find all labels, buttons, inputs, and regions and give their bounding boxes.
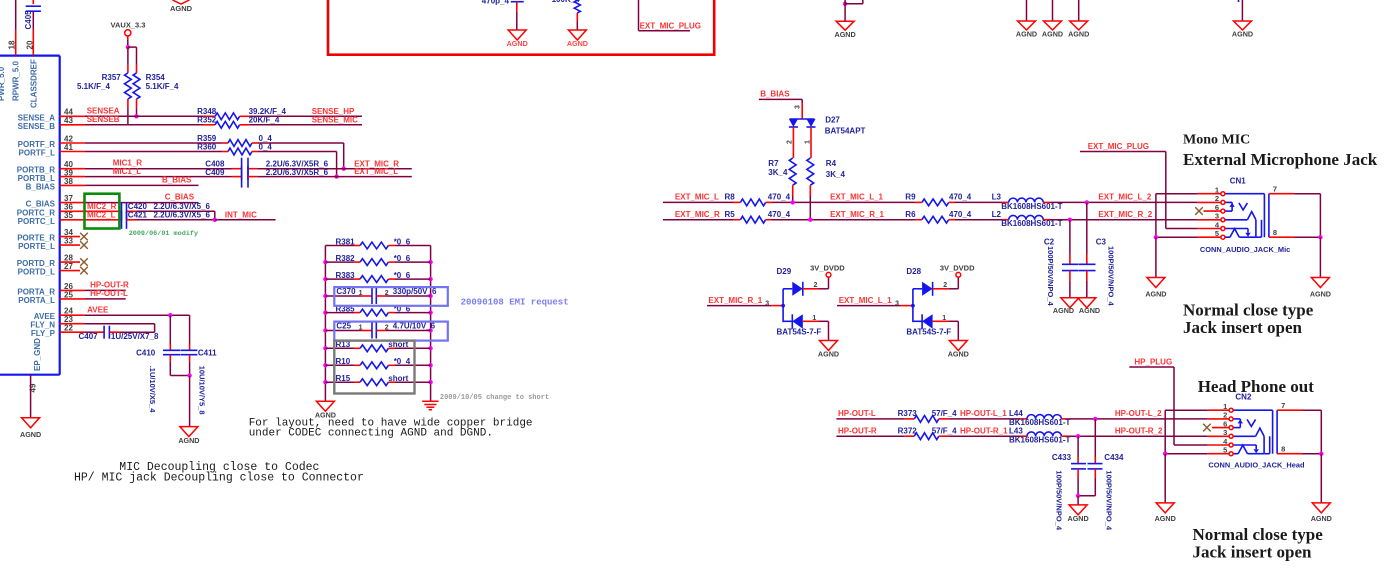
value 100P/50V/NPO_4 (C3 rotated) <box>1106 246 1115 306</box>
label C3 <box>1096 237 1107 246</box>
resistor R373 57/F_4 <box>905 416 949 423</box>
svg-text:Jack insert open: Jack insert open <box>1183 318 1303 337</box>
wire VAUX to R357 <box>127 47 129 65</box>
svg-text:HP-OUT-L_2: HP-OUT-L_2 <box>1115 409 1162 418</box>
wire HP-OUT-R_2 row <box>1070 435 1208 437</box>
svg-text:C411: C411 <box>198 349 217 358</box>
svg-text:PORTC_L: PORTC_L <box>18 217 55 226</box>
junction stack right <box>428 310 432 314</box>
title Jack insert open (CN1) <box>1183 318 1303 337</box>
label C2 <box>1044 237 1055 246</box>
svg-text:HP-OUT-L: HP-OUT-L <box>90 289 128 298</box>
ground AGND top 5 <box>1232 21 1253 39</box>
label R373 <box>898 409 918 418</box>
net label HP_PLUG <box>1134 358 1172 367</box>
junction VAUX node <box>126 45 130 49</box>
label C421 <box>128 210 148 219</box>
svg-text:57/F_4: 57/F_4 <box>932 426 957 435</box>
svg-text:AGND: AGND <box>835 30 856 39</box>
junction CN1 pin8 node <box>1318 235 1322 239</box>
net label EXT_MIC_L_1 <box>830 193 883 202</box>
svg-text:CONN_AUDIO_JACK_Mic: CONN_AUDIO_JACK_Mic <box>1200 245 1290 254</box>
capacitor C433 100P/50V/NPO_4 <box>1071 436 1086 496</box>
svg-text:EXT_MIC_L: EXT_MIC_L <box>675 193 719 202</box>
svg-text:Normal close type: Normal close type <box>1193 525 1324 544</box>
svg-text:EXT_MIC_R_2: EXT_MIC_R_2 <box>1098 210 1152 219</box>
wire top AGND 5 <box>1239 0 1243 21</box>
svg-text:AGND: AGND <box>948 350 969 359</box>
capacitor C405 (series on pin20 wire) <box>26 0 41 56</box>
label R8 <box>725 193 736 202</box>
capacitor C410 .1U/10V/X5_4 <box>163 315 190 375</box>
resistor R383 *0_6 <box>325 276 430 283</box>
net label EXT_MIC_PLUG (CN1) <box>1088 142 1149 151</box>
label CN2 <box>1235 393 1252 402</box>
svg-text:BAT54S-7-F: BAT54S-7-F <box>777 327 822 336</box>
svg-text:3K_4: 3K_4 <box>768 168 788 177</box>
svg-text:HP-OUT-R_2: HP-OUT-R_2 <box>1115 426 1163 435</box>
resistor R359 0_4 <box>222 140 258 147</box>
svg-text:R360: R360 <box>197 142 217 151</box>
wire HP-OUT-R row <box>836 435 904 437</box>
value 3K_4 (R7) <box>768 168 788 177</box>
ground AGND CN2 left <box>1155 503 1176 523</box>
wire CN2 right ground down <box>1320 454 1322 503</box>
label CN1 <box>1230 176 1247 185</box>
junction stack left <box>323 294 327 298</box>
net label EXT_MIC_R <box>354 159 399 168</box>
value *0_6 (R381) <box>394 237 411 246</box>
svg-text:8: 8 <box>1273 228 1277 237</box>
net label B_BIAS <box>162 176 192 185</box>
ground AGND CN2 right <box>1311 503 1332 523</box>
svg-text:EXT_MIC_L_2: EXT_MIC_L_2 <box>1098 193 1151 202</box>
pin 3 (D29) <box>765 300 769 307</box>
svg-text:L44: L44 <box>1009 409 1023 418</box>
wire SENSE_HP <box>249 115 362 117</box>
svg-text:AGND: AGND <box>1068 514 1089 523</box>
svg-text:3V_DVDD: 3V_DVDD <box>940 263 975 272</box>
svg-text:BK1608HS601-T: BK1608HS601-T <box>1001 202 1062 211</box>
highlight gray box R13-R15 <box>334 341 414 394</box>
pin number 49 (rotated) <box>29 383 38 392</box>
wire EXT_MIC_R after R6 <box>955 219 1002 221</box>
net label MIC1_R <box>113 159 143 168</box>
wire FLY_N (pin23) <box>60 324 155 333</box>
junction C3 tap <box>1085 200 1089 204</box>
svg-text:C_BIAS: C_BIAS <box>26 200 56 209</box>
resistor R352 20K/F_4 <box>203 121 249 128</box>
label R360 <box>197 142 217 151</box>
wire CN1 pin2 stub <box>1198 201 1221 203</box>
wire HP-OUT-L_1 <box>949 418 1020 420</box>
label R4 <box>826 159 837 168</box>
svg-text:AGND: AGND <box>1311 514 1332 523</box>
svg-text:1: 1 <box>359 324 363 331</box>
value short (R13) <box>388 340 408 349</box>
capacitor C421 2.2U/6.3V/X5_6 <box>122 211 215 229</box>
svg-text:R7: R7 <box>768 159 779 168</box>
label C405 (rotated) <box>24 10 33 30</box>
net label EXT_MIC_PLUG (top) <box>640 21 701 30</box>
resistor R385 *0_6 <box>325 309 430 316</box>
junction stack right <box>428 294 432 298</box>
inductor L3 BK1608HS601-T <box>1002 198 1050 202</box>
svg-text:R383: R383 <box>336 271 356 280</box>
resistor R360 0_4 <box>222 148 258 155</box>
svg-text:AGND: AGND <box>1145 290 1166 299</box>
svg-text:3: 3 <box>795 105 802 109</box>
svg-text:1: 1 <box>942 315 946 322</box>
svg-text:PWR_5.0: PWR_5.0 <box>0 66 6 101</box>
wire MIC1_L (pin39) <box>60 176 232 178</box>
svg-text:CLASSDREF: CLASSDREF <box>30 59 39 108</box>
svg-text:MIC1_L: MIC1_L <box>113 167 142 176</box>
label R357 <box>102 73 122 82</box>
connector CN1 jack glyph <box>1215 185 1294 240</box>
svg-text:D29: D29 <box>777 267 792 276</box>
wire B_BIAS to D27 <box>759 99 802 119</box>
svg-text:0_4: 0_4 <box>259 142 273 151</box>
value *0_6 (R382) <box>394 254 411 263</box>
highlight green box around MIC2 labels <box>85 194 120 229</box>
value 10U/10V/Y5_8 (rotated) <box>198 366 207 415</box>
wire pin18 vertical <box>15 0 17 56</box>
resistor R9 470_4 <box>915 199 955 206</box>
value *0_4 (R10) <box>394 357 411 366</box>
svg-text:EXT_MIC_L_1: EXT_MIC_L_1 <box>839 296 892 305</box>
svg-text:33: 33 <box>64 237 73 246</box>
ground bars stack right (DGND) <box>422 401 438 410</box>
ground AGND stack left <box>315 401 336 419</box>
junction CN2 pin8 node <box>1319 452 1323 456</box>
svg-text:D28: D28 <box>906 267 921 276</box>
svg-text:*0_6: *0_6 <box>394 271 411 280</box>
svg-text:470_4: 470_4 <box>768 210 791 219</box>
label C411 <box>198 349 217 358</box>
svg-text:R10: R10 <box>336 357 351 366</box>
svg-text:AGND: AGND <box>1053 306 1074 315</box>
svg-text:AGND: AGND <box>170 4 193 13</box>
svg-text:*0_6: *0_6 <box>394 237 411 246</box>
svg-text:C409: C409 <box>205 168 225 177</box>
wire INT_MIC <box>215 219 276 221</box>
ground AGND below C411 <box>178 427 199 445</box>
value *0_6 (R383) <box>394 271 411 280</box>
value 20K/F_4 <box>249 116 280 125</box>
ground AGND top 1 <box>835 21 856 39</box>
pin 25 PORTA_L <box>18 290 73 305</box>
pin 2 (D28) <box>943 282 947 289</box>
pin number 18 (rotated) <box>8 40 17 49</box>
label R382 <box>336 254 356 263</box>
wire HP-OUT-L row <box>836 418 904 420</box>
svg-text:BAT54S-7-F: BAT54S-7-F <box>906 327 951 336</box>
label R354 <box>146 73 166 82</box>
wire C433 to AGND <box>1077 496 1079 505</box>
net label EXT_MIC_L (right) <box>675 193 719 202</box>
wire EXT_MIC_PLUG (top) <box>639 0 691 31</box>
pin 38 B_BIAS <box>26 177 74 192</box>
label R10 <box>336 357 351 366</box>
svg-text:AGND: AGND <box>818 350 839 359</box>
IC codec block outline U_left <box>0 56 60 375</box>
svg-text:5.1K/F_4: 5.1K/F_4 <box>146 82 179 91</box>
pin 43 SENSE_B <box>18 116 74 131</box>
capacitor C409 2.2U/6.3V/X5R_6 <box>232 166 258 188</box>
resistor R4 3K_4 <box>807 127 814 220</box>
svg-text:22: 22 <box>64 324 73 333</box>
ground AGND under 470p cap <box>507 30 528 48</box>
ground AGND top 2 <box>1016 21 1037 39</box>
wire CN2 pin3 stub <box>1208 435 1229 437</box>
svg-text:AGND: AGND <box>1042 30 1063 39</box>
net label EXT_MIC_R (right) <box>675 210 720 219</box>
label R372 <box>898 426 918 435</box>
pin 2 (D29) <box>814 282 818 289</box>
junction stack left <box>323 277 327 281</box>
label R348 <box>197 107 217 116</box>
wire CN2 pin5 to ground <box>1165 453 1229 455</box>
value 1U/25V/X7_8 <box>111 332 159 341</box>
svg-text:CONN_AUDIO_JACK_Head: CONN_AUDIO_JACK_Head <box>1208 461 1305 470</box>
wire SENSEB (pin43) <box>60 124 203 126</box>
label D28 <box>906 267 921 276</box>
label R383 <box>336 271 356 280</box>
net label MIC2_L <box>87 210 116 219</box>
junction stack right <box>428 363 432 367</box>
wire top AGND 1 corner <box>845 0 863 21</box>
value short (R15) <box>388 374 408 383</box>
wire EXT_MIC_L_2 row <box>1050 201 1198 203</box>
value 57/F_4 (R373) <box>932 409 957 418</box>
junction D28 input <box>911 304 915 308</box>
svg-text:C410: C410 <box>136 349 156 358</box>
svg-text:Normal close type: Normal close type <box>1183 301 1314 320</box>
label L43 <box>1009 426 1023 435</box>
note 20090108 EMI request <box>461 298 569 308</box>
junction R4/EXT_MIC_R_1 <box>808 218 812 222</box>
note For layout copper bridge <box>249 418 533 440</box>
resistor R5 470_4 <box>733 216 772 223</box>
wire CN1 pin3 stub <box>1198 219 1221 221</box>
svg-text:470_4: 470_4 <box>768 193 791 202</box>
wire HP_PLUG to CN2 pin4 <box>1129 367 1229 445</box>
svg-text:27: 27 <box>64 262 73 271</box>
wire EXT_MIC_L row <box>663 201 733 203</box>
label D27 <box>825 116 840 125</box>
net label HP-OUT-L_2 <box>1115 409 1162 418</box>
net label EXT_MIC_L_1 (to D28) <box>839 296 892 305</box>
svg-text:470p_4: 470p_4 <box>482 0 510 5</box>
value 2.2U/6.3V/X5R_6 (C409) <box>266 168 329 177</box>
highlight red EMI box <box>328 0 714 55</box>
label C370 <box>336 287 356 296</box>
wire pin41 to EXT_MIC_L node <box>258 152 337 177</box>
resistor R357 5.1K/F_4 <box>125 65 132 125</box>
no-connect X CN1 pin6 <box>1195 207 1220 215</box>
net label HP-OUT-L <box>90 289 128 298</box>
label R15 <box>336 374 351 383</box>
ground AGND top 3 <box>1042 21 1063 39</box>
wire HP-OUT-R (pin26) <box>60 289 126 291</box>
svg-text:5.1K/F_4: 5.1K/F_4 <box>77 82 110 91</box>
svg-text:EP_GND: EP_GND <box>33 338 42 371</box>
value 4.7U/10V_6 <box>393 321 436 330</box>
wire CN2 ground down <box>1164 454 1166 503</box>
svg-text:BK1608HS601-T: BK1608HS601-T <box>1001 219 1062 228</box>
resistor R15 short <box>325 379 430 386</box>
svg-text:HP_PLUG: HP_PLUG <box>1134 358 1172 367</box>
net label SENSE_HP <box>312 107 355 116</box>
label C407 <box>79 332 99 341</box>
value *0_6 (R385) <box>394 305 411 314</box>
net label HP-OUT-L (right) <box>838 409 876 418</box>
svg-text:*0_6: *0_6 <box>394 254 411 263</box>
wire CN1 ground down <box>1155 237 1157 277</box>
label R13 <box>336 340 351 349</box>
wire EXT_MIC_PLUG to CN1 pin4 <box>1080 152 1221 229</box>
junction C433 tap <box>1076 434 1080 438</box>
resistor R382 *0_6 <box>325 259 430 266</box>
resistor R354 5.1K/F_4 <box>133 65 140 117</box>
pin name RPWR_5.0 (rotated) <box>12 60 21 101</box>
svg-text:RPWR_5.0: RPWR_5.0 <box>12 60 21 101</box>
wire top AGND 4 <box>1078 0 1080 21</box>
value 5.1K/F_4 (R357) <box>77 82 110 91</box>
capacitor C408 2.2U/6.3V/X5R_6 <box>232 158 258 180</box>
svg-text:35: 35 <box>64 211 73 220</box>
svg-text:7: 7 <box>1273 185 1277 194</box>
svg-text:INT_MIC: INT_MIC <box>225 210 257 219</box>
ground AGND under D29 <box>818 341 839 359</box>
junction stack left <box>323 260 327 264</box>
pin 1 (D29) <box>812 315 816 322</box>
label R5 <box>725 210 736 219</box>
svg-text:EXT_MIC_R_1: EXT_MIC_R_1 <box>708 296 762 305</box>
svg-text:R9: R9 <box>905 193 916 202</box>
junction pin41/EXT_MIC_L <box>334 174 338 178</box>
no-connect X pin 28 <box>60 258 88 266</box>
svg-text:R372: R372 <box>898 426 918 435</box>
label C408 <box>205 159 225 168</box>
resistor R348 39.2K/F_4 <box>203 113 249 120</box>
svg-text:C405: C405 <box>24 10 33 30</box>
title Mono MIC <box>1183 133 1250 148</box>
svg-text:100P/50V/NPO_4: 100P/50V/NPO_4 <box>1105 470 1114 530</box>
svg-text:SENSE_B: SENSE_B <box>18 122 56 131</box>
wire EXT_MIC_R (left) <box>257 168 412 170</box>
svg-text:Head Phone out: Head Phone out <box>1198 377 1315 396</box>
wire EXT_MIC_L_1 row <box>772 201 915 203</box>
wire pin41 <box>60 151 223 153</box>
net label SENSEA <box>87 106 120 115</box>
resistor 100K_4 (partial) <box>552 0 581 30</box>
value 2.2U/6.3V/X5R_6 (C408) <box>266 159 329 168</box>
svg-text:100P/50V/NPO_4: 100P/50V/NPO_4 <box>1106 246 1115 306</box>
value 470_4 (R8) <box>768 193 791 202</box>
svg-text:HP-OUT-R: HP-OUT-R <box>838 426 877 435</box>
junction stack right <box>428 328 432 332</box>
svg-text:470_4: 470_4 <box>949 193 972 202</box>
wire CN1 pin7/pin8 to ground <box>1294 194 1320 238</box>
svg-text:25: 25 <box>64 290 73 299</box>
svg-text:*0_4: *0_4 <box>394 357 411 366</box>
svg-text:HP-OUT-L: HP-OUT-L <box>838 409 876 418</box>
highlight violet box C25 <box>334 322 448 341</box>
svg-text:HP/ MIC jack Decoupling close: HP/ MIC jack Decoupling close to Connect… <box>74 471 364 484</box>
inductor L44 BK1608HS601-T <box>1020 415 1070 419</box>
pin 27 PORTD_L <box>18 262 74 277</box>
svg-text:AGND: AGND <box>507 39 528 48</box>
title Jack insert open (CN2) <box>1193 542 1313 561</box>
pin 40 PORTB_R <box>17 160 74 175</box>
svg-text:2009/06/01 modify: 2009/06/01 modify <box>129 230 198 238</box>
label C434 <box>1104 453 1124 462</box>
diode D27 BAT54APT (dual common anode) <box>789 119 816 127</box>
wire EXT_MIC_R_1 row <box>772 219 915 221</box>
value .1U/10V/X5_4 (rotated) <box>148 366 157 414</box>
svg-text:PORTA_L: PORTA_L <box>18 296 55 305</box>
wire EXT_MIC_L after R9 <box>955 201 1002 203</box>
label L2 <box>992 210 1002 219</box>
svg-text:L2: L2 <box>992 210 1002 219</box>
ground AGND CN1 left <box>1145 278 1166 299</box>
resistor R372 57/F_4 <box>905 433 949 440</box>
wire CN1 pin1 to ground rail <box>1156 194 1221 238</box>
svg-text:FLY_P: FLY_P <box>31 329 56 338</box>
svg-text:470_4: 470_4 <box>949 210 972 219</box>
wire top AGND 3 <box>1052 0 1054 21</box>
svg-text:AGND: AGND <box>567 39 588 48</box>
svg-text:EXT_MIC_L: EXT_MIC_L <box>354 167 398 176</box>
svg-text:R357: R357 <box>102 73 122 82</box>
svg-text:R354: R354 <box>146 73 166 82</box>
net label EXT_MIC_R_2 <box>1098 210 1152 219</box>
value 330p/50V_6 <box>393 287 437 296</box>
ground AGND under C3 <box>1078 298 1100 315</box>
connector CN2 jack glyph <box>1223 401 1302 456</box>
capacitor C411 10U/10V/Y5_8 <box>180 315 197 375</box>
wire top AGND 2 <box>1026 0 1028 21</box>
svg-text:EXT_MIC_PLUG: EXT_MIC_PLUG <box>640 21 701 30</box>
no-connect X pin 33 <box>60 241 88 249</box>
net label EXT_MIC_R_1 <box>830 210 884 219</box>
label R6 <box>905 210 916 219</box>
pin 1 (C25) <box>359 324 363 331</box>
svg-text:AGND: AGND <box>1079 306 1100 315</box>
label L3 <box>992 193 1002 202</box>
svg-text:57/F_4: 57/F_4 <box>932 409 957 418</box>
svg-text:20K/F_4: 20K/F_4 <box>249 116 280 125</box>
svg-text:R6: R6 <box>905 210 916 219</box>
svg-text:EXT_MIC_R_1: EXT_MIC_R_1 <box>830 210 884 219</box>
svg-text:C_BIAS: C_BIAS <box>165 193 195 202</box>
pin name CLASSDREF (rotated) <box>30 59 39 108</box>
svg-text:3V_DVDD: 3V_DVDD <box>810 263 845 272</box>
note MIC Decoupling <box>74 461 364 484</box>
wire stack left vertical <box>324 246 326 402</box>
resistor R10 *0_4 <box>325 362 430 369</box>
value BAT54APT <box>825 127 866 136</box>
svg-text:1U/25V/X7_8: 1U/25V/X7_8 <box>111 332 159 341</box>
inductor L43 BK1608HS601-T <box>1020 432 1070 436</box>
label R7 <box>768 159 779 168</box>
svg-text:7: 7 <box>1281 401 1285 410</box>
label R381 <box>336 237 356 246</box>
value 57/F_4 (R372) <box>932 426 957 435</box>
svg-text:D27: D27 <box>825 116 840 125</box>
